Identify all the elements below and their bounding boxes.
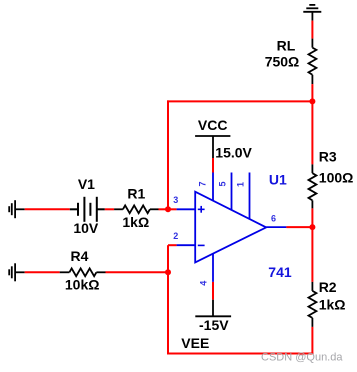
wire RL to top node: [311, 84, 313, 101]
wire top horizontal: [167, 100, 313, 102]
resistor R3: [309, 164, 317, 208]
pin 2 lead (- input): [177, 244, 196, 246]
wire pin 4 to VEE: [212, 282, 214, 300]
svg-text:7: 7: [198, 181, 208, 186]
svg-text:1kΩ: 1kΩ: [319, 297, 346, 313]
op-amp + marking: [198, 206, 205, 213]
wire + input node to pin 3: [168, 208, 177, 210]
wire R3 to output node: [311, 208, 313, 227]
wire GND2 to V1: [25, 208, 70, 210]
svg-text:RL: RL: [277, 38, 296, 54]
wire R1 to + input node: [159, 208, 169, 210]
VCC power symbol: [195, 136, 230, 158]
svg-text:741: 741: [268, 264, 292, 280]
pin 4 lead (blue part): [212, 254, 214, 282]
svg-text:2: 2: [173, 231, 178, 241]
svg-text:R4: R4: [71, 248, 89, 264]
op-amp U1 triangle: [195, 192, 266, 263]
svg-text:10V: 10V: [73, 220, 99, 236]
wire - input corner to pin 2: [168, 244, 177, 246]
node junction top right: [309, 98, 315, 104]
pin 5 lead: [231, 173, 233, 211]
node junction + input: [165, 206, 171, 212]
node junction output: [309, 224, 315, 230]
svg-text:-15V: -15V: [199, 317, 229, 333]
node junction - input: [165, 269, 171, 275]
resistor R2: [309, 282, 317, 327]
svg-text:6: 6: [271, 214, 276, 224]
pin 7 lead (blue part): [212, 173, 214, 201]
resistor RL: [309, 39, 317, 85]
svg-text:100Ω: 100Ω: [319, 170, 354, 186]
pin 6 lead (output, blue part): [266, 226, 286, 228]
wire output node down to R2: [311, 227, 313, 282]
svg-text:1: 1: [236, 182, 246, 187]
wire pin 6 to output node: [286, 226, 312, 228]
wire bottom horizontal: [167, 353, 313, 355]
svg-text:R2: R2: [319, 279, 337, 295]
svg-text:4: 4: [199, 281, 209, 286]
svg-text:U1: U1: [269, 171, 287, 187]
wire GND3 to R4: [25, 271, 60, 273]
svg-text:3: 3: [173, 195, 178, 205]
wire top node down to R3: [311, 101, 313, 164]
pin 3 lead (+ input): [177, 208, 196, 210]
wire V1 to R1: [105, 208, 114, 210]
svg-text:VEE: VEE: [181, 335, 209, 351]
svg-text:5: 5: [217, 181, 227, 186]
svg-text:V1: V1: [78, 176, 95, 192]
ground GND1 (top right earth ground): [303, 5, 321, 21]
svg-text:CSDN @Qun.da: CSDN @Qun.da: [261, 352, 343, 364]
svg-text:R3: R3: [319, 149, 337, 165]
svg-text:VCC: VCC: [198, 117, 228, 133]
svg-text:15.0V: 15.0V: [215, 145, 252, 161]
op-amp - marking: [198, 244, 205, 246]
ground GND3 (left, R4 branch): [9, 263, 25, 281]
ground GND2 (left, V1 branch): [9, 200, 25, 218]
wire VCC to pin 7: [212, 158, 214, 173]
wire R4 to - input node: [106, 271, 169, 273]
VEE power symbol: [195, 300, 231, 317]
wire left vertical from - input down to bottom rail: [167, 245, 169, 354]
wire GND1 to RL: [311, 21, 313, 39]
svg-text:750Ω: 750Ω: [265, 54, 300, 70]
svg-text:1kΩ: 1kΩ: [122, 214, 149, 230]
pin 1 lead: [249, 173, 251, 220]
battery V1: [70, 197, 105, 222]
wire R2 to bottom rail: [311, 327, 313, 355]
resistor R4: [60, 268, 106, 276]
svg-text:R1: R1: [127, 186, 145, 202]
wire left vertical down to + input node: [167, 100, 169, 209]
svg-text:10kΩ: 10kΩ: [65, 277, 100, 293]
resistor R1: [114, 205, 158, 213]
